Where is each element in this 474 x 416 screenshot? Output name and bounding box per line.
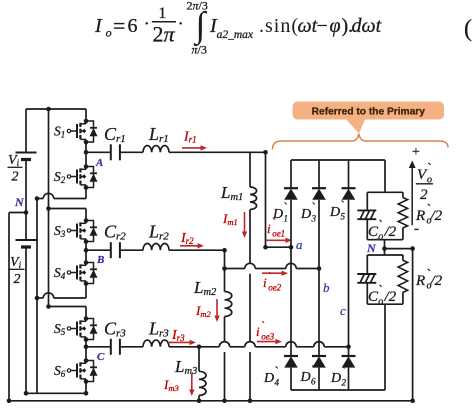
- svg-text:A: A: [95, 157, 103, 169]
- wire: N prime wire: [382, 246, 415, 251]
- svg-text:`: `: [340, 198, 345, 213]
- wire: Cr3 to Lr3: [120, 346, 143, 348]
- capacitor Cr1: [104, 124, 126, 161]
- svg-text:6: 6: [128, 15, 138, 37]
- svg-text:2π/3: 2π/3: [187, 0, 208, 13]
- wire: leg1 bottom to bus (hops top bus): [35, 193, 86, 201]
- svg-text:a2_max: a2_max: [217, 29, 254, 41]
- svg-text:2: 2: [14, 272, 21, 287]
- inductor Lr3: [143, 318, 169, 347]
- svg-text:2: 2: [420, 187, 428, 203]
- wire: legs bottom bus: [36, 199, 38, 394]
- formula: Io output current equation: [94, 0, 382, 57]
- svg-text:6: 6: [311, 377, 316, 387]
- wire: rectifier column b: [318, 160, 320, 390]
- svg-text:oe3: oe3: [261, 332, 274, 342]
- svg-text:`: `: [267, 270, 271, 284]
- current arrow Ir2: [180, 231, 204, 249]
- svg-text:a: a: [296, 237, 303, 252]
- inductor Lr2: [143, 222, 169, 251]
- transistor S4: [54, 260, 98, 286]
- svg-text:/2: /2: [384, 224, 397, 240]
- svg-text:π/3: π/3: [192, 43, 207, 57]
- wire: phase A riser to node a wire: [263, 152, 268, 249]
- label Ro/2 upper: [415, 203, 443, 227]
- diode D5: [329, 188, 356, 221]
- wire: phase A node to Cr1: [86, 151, 111, 153]
- svg-text:1: 1: [284, 214, 289, 224]
- annotation Vo/2 with polarity: [409, 145, 433, 237]
- node b label: [323, 280, 330, 295]
- svg-text:D: D: [300, 207, 311, 222]
- wire: rectifier column a: [290, 160, 292, 390]
- wire: i_oe2 from phase B to node b: [225, 263, 322, 271]
- current arrow Ir1: [182, 130, 207, 151]
- wire: top rail from source to leg column: [26, 109, 86, 153]
- svg-text:/2: /2: [430, 208, 443, 224]
- wire: Lr2 to phase B bend: [169, 248, 227, 253]
- svg-text:2π: 2π: [153, 22, 176, 47]
- capacitor Co/2 lower and resistor Ro/2 lower (output box 2): [357, 255, 407, 308]
- capacitor Co/2 upper and resistor Ro/2 upper (output box 1): [357, 192, 407, 242]
- svg-text:·: ·: [178, 14, 184, 35]
- svg-text:`: `: [376, 237, 380, 249]
- svg-text:D: D: [272, 207, 283, 222]
- svg-text:D: D: [263, 371, 274, 386]
- current arrow Ir3: [168, 328, 196, 345]
- wire: battery column mid (N to lower source): [25, 160, 27, 241]
- svg-text:D: D: [330, 371, 341, 386]
- wire: box2 top feed: [384, 249, 386, 255]
- svg-text:Referred to the Primary: Referred to the Primary: [312, 106, 426, 117]
- svg-text:φ: φ: [330, 15, 341, 37]
- transistor S2: [54, 164, 98, 190]
- node c label: [340, 303, 346, 318]
- node N prime label: [366, 237, 380, 255]
- svg-text:ωt: ωt: [362, 15, 382, 37]
- inductor Lr1: [143, 124, 169, 153]
- svg-text:`: `: [310, 363, 315, 378]
- wire: N link vertical: [410, 249, 415, 404]
- svg-text:b: b: [323, 280, 330, 295]
- diode D4: [263, 356, 298, 388]
- wire: bottom rail (N link): [7, 399, 413, 404]
- capacitor Cr2: [104, 222, 126, 259]
- svg-text:oe2: oe2: [268, 283, 281, 293]
- wire: phase C node to Cr3: [86, 346, 111, 348]
- node A: [95, 157, 103, 169]
- svg-text:C: C: [97, 351, 105, 363]
- label Ro/2 lower: [415, 268, 443, 292]
- svg-text:4: 4: [275, 378, 280, 388]
- svg-text:oe1: oe1: [272, 229, 285, 239]
- capacitor Cr3: [104, 318, 126, 355]
- svg-text:ωt: ωt: [298, 15, 318, 37]
- svg-text:/2: /2: [384, 289, 397, 305]
- orange curly brace: [273, 134, 449, 150]
- node C: [97, 351, 105, 363]
- svg-text:N: N: [14, 195, 25, 209]
- svg-text:I: I: [94, 15, 103, 37]
- svg-text:o: o: [378, 297, 383, 308]
- wire: node a horizontal: [266, 245, 294, 250]
- wire: rectifier top rail: [291, 160, 385, 192]
- voltage source Vi/2 lower (battery): [10, 240, 37, 287]
- current arrow Im2: [195, 299, 220, 322]
- transistor S6: [54, 358, 98, 384]
- svg-text:c: c: [340, 303, 346, 318]
- svg-text:D: D: [329, 205, 340, 220]
- svg-text:`: `: [283, 200, 288, 215]
- inductor Lm3: [174, 347, 206, 403]
- svg-text:R: R: [415, 273, 425, 289]
- wire: leg2 top from top bus: [46, 206, 86, 211]
- wire: leg 1 column: [84, 109, 89, 199]
- wire: phase B riser: [222, 250, 227, 271]
- wire: leg 3 column: [84, 307, 89, 394]
- node N: [14, 195, 28, 215]
- current arrow Im3: [163, 374, 195, 396]
- svg-text:o: o: [106, 26, 112, 40]
- wire: rectifier column c: [348, 160, 350, 390]
- transistor S3: [54, 218, 98, 244]
- wire: legs top bus: [48, 109, 50, 307]
- node a label: [296, 237, 303, 252]
- node B: [96, 254, 104, 266]
- diode D1: [272, 188, 298, 223]
- diode D3: [300, 188, 326, 223]
- diode D6: [300, 356, 327, 387]
- svg-text:+: +: [412, 145, 420, 160]
- wire: N rail to bottom: [9, 213, 26, 401]
- current arrow i_oe1: [266, 216, 292, 244]
- svg-text:`: `: [260, 319, 264, 333]
- inductor Lm1: [220, 152, 257, 403]
- current arrow i_oe2: [262, 270, 288, 293]
- equation number parenthesis: [464, 16, 472, 42]
- svg-text:`: `: [274, 364, 279, 379]
- wire: battery to star rail: [25, 247, 27, 393]
- svg-text:/2: /2: [430, 273, 443, 289]
- wire: leg2 bottom to bus (hops top bus): [35, 293, 86, 301]
- wire: Lr1 to phase A bend: [169, 150, 268, 155]
- wire: leg3 top from top bus: [46, 304, 86, 309]
- current arrow i_oe3: [256, 319, 282, 345]
- wire: phase B node to Cr2: [86, 249, 111, 251]
- svg-text:-: -: [414, 221, 419, 237]
- wire: box1 bottom to N prime wire: [384, 240, 386, 249]
- diode D2: [330, 356, 356, 388]
- svg-text:1: 1: [159, 5, 167, 22]
- svg-text:2: 2: [342, 378, 347, 388]
- wire: rectifier bottom rail: [291, 304, 385, 390]
- wire: Lr3 to Lm3 tap: [169, 345, 201, 350]
- svg-text:2: 2: [12, 170, 19, 185]
- svg-text:`: `: [341, 364, 346, 379]
- wire: i_oe3 from phase C to node c: [199, 342, 351, 350]
- inductor Lm2: [193, 269, 232, 404]
- svg-text:`: `: [311, 200, 316, 215]
- svg-text:B: B: [96, 254, 104, 266]
- voltage source Vi/2 upper (battery): [8, 153, 37, 185]
- wire: Cr2 to Lr2: [120, 249, 143, 251]
- svg-text:D: D: [300, 370, 311, 385]
- svg-text:·: ·: [144, 14, 150, 35]
- transistor S1: [54, 119, 98, 145]
- svg-text:3: 3: [311, 214, 317, 224]
- svg-text:−: −: [317, 15, 328, 37]
- junction top rail / top bus: [46, 107, 51, 112]
- svg-text:5: 5: [341, 212, 346, 222]
- svg-text:.sin(: .sin(: [259, 15, 299, 37]
- transistor S5: [54, 316, 98, 342]
- current arrow Im1: [222, 211, 247, 238]
- svg-text:=: =: [113, 13, 125, 38]
- callout box: Referred to the Primary: [293, 102, 445, 134]
- wire: Cr1 to Lr1: [120, 151, 143, 153]
- wire: leg 2 column: [84, 209, 89, 299]
- wire: star rail: [24, 391, 89, 396]
- svg-text:(: (: [464, 16, 472, 42]
